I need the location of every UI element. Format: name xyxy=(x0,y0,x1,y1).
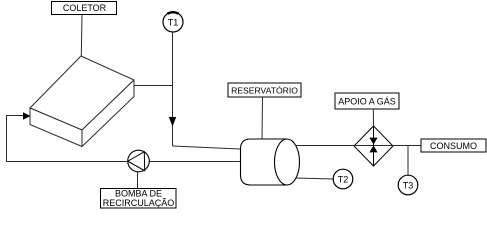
wire down to T3 xyxy=(407,146,409,176)
wire pump to reservoir xyxy=(150,161,241,163)
wire COLETOR label to collector xyxy=(80,15,83,57)
svg-text:T1: T1 xyxy=(168,18,179,28)
diamond valve APOIO A GAS xyxy=(354,126,393,166)
svg-text:APOIO A GÁS: APOIO A GÁS xyxy=(338,97,396,107)
flow arrow into collector xyxy=(23,112,31,120)
flow arrow down xyxy=(169,117,176,127)
label box COLETOR xyxy=(52,2,117,15)
svg-text:RESERVATÓRIO: RESERVATÓRIO xyxy=(231,86,298,96)
label box APOIO A GAS xyxy=(335,93,399,109)
svg-text:T2: T2 xyxy=(338,175,349,185)
reservoir tank body xyxy=(241,139,300,185)
wire return loop left (collector inlet) xyxy=(7,116,128,162)
svg-text:COLETOR: COLETOR xyxy=(63,3,107,13)
svg-text:RECIRCULAÇÃO: RECIRCULAÇÃO xyxy=(103,198,175,208)
label box RESERVATORIO xyxy=(228,83,301,97)
wire collector hot outlet to T1 line xyxy=(134,85,173,87)
pump (circle with triangle) xyxy=(128,150,150,172)
wire RESERVATORIO label to tank xyxy=(261,97,264,139)
valve internal vertical line xyxy=(373,126,375,166)
wire APOIO label to valve xyxy=(372,109,374,126)
valve internal triangles xyxy=(369,138,377,153)
svg-text:BOMBA DE: BOMBA DE xyxy=(115,189,162,199)
wire T1 down to reservoir xyxy=(172,32,174,146)
collector panel (3D box) xyxy=(30,56,134,147)
wire elbow to reservoir inlet xyxy=(173,146,241,149)
T1 sensor xyxy=(163,12,183,32)
label box BOMBA DE RECIRCULACAO xyxy=(101,189,177,209)
label box CONSUMO xyxy=(421,139,486,152)
pipe reservoir to consumo xyxy=(296,145,422,147)
T3 sensor xyxy=(398,175,418,195)
svg-text:T3: T3 xyxy=(403,181,414,191)
T2 sensor xyxy=(333,169,353,189)
svg-text:CONSUMO: CONSUMO xyxy=(430,141,477,151)
wire pump to label xyxy=(137,172,139,189)
wire tank to T2 xyxy=(296,178,333,179)
